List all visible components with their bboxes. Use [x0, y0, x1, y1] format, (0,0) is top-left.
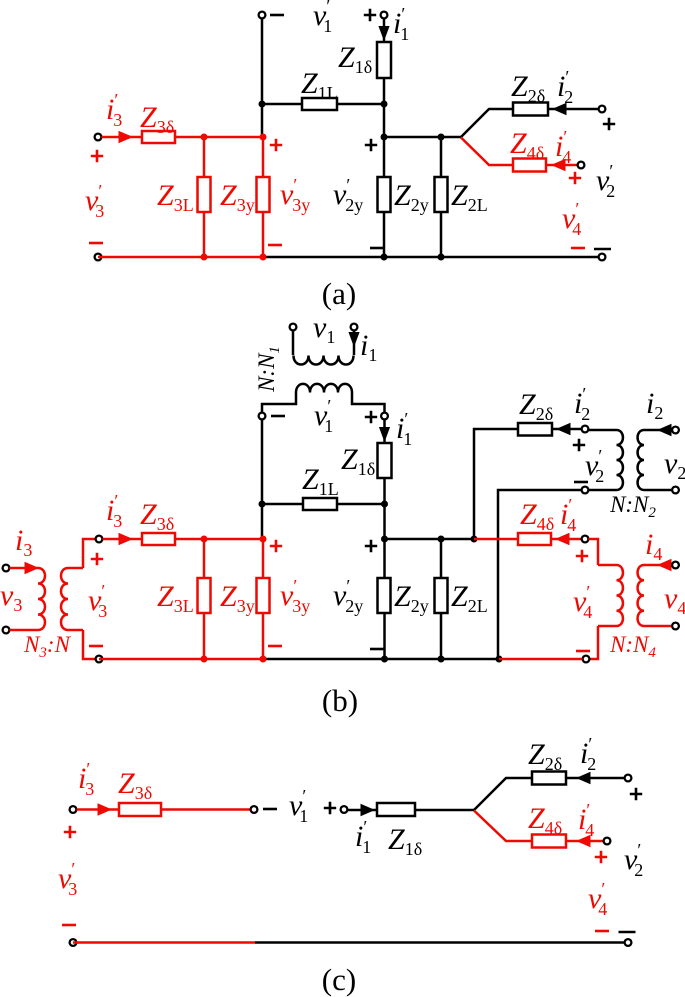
arrow i4' (b)	[555, 533, 570, 545]
transformer T1 secondary winding (b)	[262, 384, 385, 412]
svg-text:v1: v1	[313, 311, 335, 347]
terminal v4 plus (b)	[672, 562, 679, 569]
impedance Z3d (b)	[142, 533, 175, 545]
svg-text:Z1δ: Z1δ	[388, 823, 422, 859]
transformer T2 primary winding (b)	[589, 430, 623, 490]
svg-text:i′4: i′4	[560, 495, 576, 535]
transformer T3 source terminal top (b)	[3, 565, 10, 572]
arrow i3' (c)	[98, 803, 113, 815]
svg-text:Z2L: Z2L	[451, 179, 488, 215]
svg-text:Z1δ: Z1δ	[341, 443, 375, 479]
svg-text:N:N2: N:N2	[609, 492, 656, 521]
svg-text:Z3δ: Z3δ	[140, 101, 174, 137]
svg-text:N3:N: N3:N	[23, 632, 72, 661]
svg-text:i4: i4	[645, 528, 662, 564]
terminal common minus (c)	[625, 939, 632, 946]
arrow i2 (b)	[657, 424, 672, 436]
red bottom wire (b)	[99, 658, 263, 661]
wire Z2d to terminal (c)	[566, 777, 625, 780]
junction Z2y bottom (a)	[381, 254, 388, 261]
impedance Z2d (a)	[513, 103, 548, 116]
plus sign v2y' (b)	[365, 540, 377, 552]
arrow i4' (c)	[576, 835, 591, 847]
terminal v2' minus (b)	[582, 487, 589, 494]
junction Z2y bottom (b)	[381, 656, 388, 663]
terminal v3' minus (c)	[70, 939, 77, 946]
junction Z1L left (b)	[259, 501, 266, 508]
svg-text:Z1δ: Z1δ	[338, 41, 372, 77]
plus sign v3' (b)	[91, 553, 103, 565]
plus sign v3y' (b)	[270, 540, 282, 552]
wire v3' to Z3d (a)	[102, 136, 143, 139]
terminal v1 left (b)	[290, 324, 297, 331]
terminal i4' (a)	[578, 162, 585, 169]
minus sign v3' (a)	[89, 242, 103, 245]
wire T4 primary top lead (b)	[589, 539, 599, 565]
overline minus v2' (c)	[619, 931, 636, 934]
junction Z2L bottom (a)	[438, 254, 445, 261]
svg-text:i′4: i′4	[578, 800, 594, 840]
svg-text:(c): (c)	[322, 962, 356, 997]
arrow i3 (b)	[25, 562, 40, 574]
terminal common minus (a)	[599, 254, 606, 261]
arrow i1' (c)	[361, 804, 376, 816]
terminal v2 minus (b)	[672, 487, 679, 494]
svg-text:i′2: i′2	[580, 734, 596, 774]
junction left on Z1L row (a)	[259, 101, 266, 108]
terminal v3' minus (a)	[95, 254, 102, 261]
svg-text:Z3y: Z3y	[220, 179, 255, 215]
svg-text:Z3L: Z3L	[157, 179, 194, 215]
plus sign v4' (b)	[576, 550, 588, 562]
plus sign v1' (c)	[324, 802, 336, 814]
svg-text:v′3y: v′3y	[280, 576, 310, 616]
junction Z3L top (b)	[201, 536, 208, 543]
plus sign v4' (c)	[595, 851, 607, 863]
svg-text:Z4δ: Z4δ	[510, 127, 544, 163]
wire Z3d to node column (a)	[175, 136, 263, 139]
junction Z2L top (a)	[438, 134, 445, 141]
impedance Z4d (c)	[532, 835, 566, 848]
junction Z3y top (b)	[260, 536, 267, 543]
svg-text:Z2L: Z2L	[451, 580, 488, 616]
impedance Z3L (b)	[198, 578, 211, 613]
wire v3' to Z3d (b)	[103, 538, 143, 541]
impedance Z2L (b)	[435, 578, 448, 613]
transformer T2 secondary winding (b)	[638, 430, 672, 490]
red wire bottom right (b)	[499, 658, 583, 661]
wire T4 primary bottom lead (b)	[590, 626, 599, 659]
plus sign v4' (a)	[569, 172, 581, 184]
impedance Z2y (b)	[378, 578, 391, 613]
wire fork to Z4d branch (a)	[461, 138, 513, 166]
terminal v1 right (b)	[351, 324, 358, 331]
wire row to fork (a)	[384, 136, 461, 139]
svg-text:v′3: v′3	[85, 181, 104, 221]
minus sign v1' (b)	[271, 415, 285, 418]
wire Z3L column (b)	[203, 539, 206, 659]
svg-text:v′2: v′2	[624, 840, 643, 880]
wire Z2d to terminal (b)	[552, 428, 582, 431]
arrow i1' down (b)	[379, 427, 390, 442]
plus sign v1' (b)	[365, 411, 377, 423]
impedance Z2y (a)	[378, 177, 391, 212]
junction Z3L bottom (b)	[201, 656, 208, 663]
junction at bottom of v2 return (b)	[496, 656, 503, 663]
junction Z3L top (a)	[201, 134, 208, 141]
red wire Z4d branch (b)	[474, 538, 518, 541]
svg-text:Z3y: Z3y	[220, 580, 255, 616]
svg-text:v′3: v′3	[88, 581, 107, 621]
wire v2' minus to bottom (b)	[498, 490, 582, 659]
transformer T4 secondary winding (b)	[638, 565, 672, 626]
wire Z1L row (b)	[262, 503, 385, 506]
black bottom wire (a)	[263, 256, 599, 259]
svg-text:N:N1: N:N1	[254, 346, 283, 393]
svg-text:Z1L: Z1L	[301, 67, 338, 103]
svg-text:v2: v2	[664, 447, 685, 483]
terminal v1' right (c)	[341, 806, 348, 813]
impedance Z1L (b)	[303, 498, 337, 510]
overline minus v2' (a)	[594, 248, 611, 251]
svg-text:Z3δ: Z3δ	[140, 498, 174, 534]
junction Z1L right (b)	[381, 501, 388, 508]
wire left column top (a)	[261, 19, 264, 138]
svg-text:(b): (b)	[322, 683, 358, 718]
junction Z3y bottom (a)	[260, 254, 267, 261]
red bottom wire (c)	[73, 941, 255, 944]
impedance Z3d (a)	[142, 131, 175, 143]
terminal i2' (b)	[582, 426, 589, 433]
svg-text:Z2y: Z2y	[394, 179, 429, 215]
junction Z3L bottom (a)	[201, 254, 208, 261]
transformer T1 primary winding (b)	[294, 356, 354, 365]
wire Z1L row (a)	[262, 103, 384, 106]
junction Z3y top (a)	[260, 134, 267, 141]
plus sign v2y' (a)	[365, 139, 377, 151]
terminal i2' (c)	[625, 775, 632, 782]
minus sign v1' (c)	[263, 808, 277, 811]
terminal v3' minus (b)	[96, 656, 103, 663]
wire Z2L column (b)	[440, 539, 443, 659]
svg-text:N:N4: N:N4	[609, 632, 656, 661]
plus sign v3' (a)	[91, 150, 103, 162]
junction Z2d branch (b)	[471, 536, 478, 543]
impedance Z3y (b)	[257, 578, 270, 613]
wire fork to Z2d branch (c)	[474, 778, 532, 810]
svg-text:i′3: i′3	[106, 491, 122, 531]
junction Z2L top (b)	[438, 536, 445, 543]
svg-text:v4: v4	[664, 582, 685, 618]
terminal i1' (a)	[381, 12, 388, 19]
impedance Z2d (c)	[532, 772, 566, 785]
svg-text:i3: i3	[15, 524, 32, 560]
plus sign v2' (c)	[630, 788, 642, 800]
svg-text:Z1L: Z1L	[302, 463, 339, 499]
minus sign v3' (c)	[62, 924, 76, 927]
svg-text:v′3y: v′3y	[280, 175, 310, 215]
impedance Z1d (c)	[377, 803, 415, 816]
transformer T3 source terminal bottom (b)	[3, 627, 10, 634]
wire Z4d to terminal (c)	[566, 840, 604, 843]
wire Z1d to Z1L row (a)	[383, 78, 386, 137]
svg-text:v′2: v′2	[596, 161, 615, 201]
terminal i4' (c)	[604, 838, 611, 845]
wire i1' down to Z1d (a)	[383, 19, 386, 43]
wire row1 center (b)	[385, 538, 475, 541]
terminal v1' minus (a)	[259, 12, 266, 19]
minus sign v4' (c)	[595, 930, 609, 933]
wire Z3d to columns (b)	[175, 538, 263, 541]
arrow i1' down (a)	[378, 26, 389, 41]
svg-text:v′4: v′4	[562, 199, 581, 239]
svg-text:Z3L: Z3L	[157, 580, 194, 616]
svg-text:i′1: i′1	[355, 817, 371, 857]
terminal v1' left (c)	[251, 806, 258, 813]
plus sign at i1' terminal (a)	[364, 9, 376, 21]
svg-text:v3: v3	[0, 579, 22, 615]
arrow i2' (a)	[552, 103, 567, 115]
red bottom wire (a)	[98, 256, 263, 259]
wire Z3d to v1' terminal (c)	[161, 808, 251, 811]
junction Z3y bottom (b)	[260, 656, 267, 663]
terminal v2 plus (b)	[672, 427, 679, 434]
impedance Z3y (a)	[257, 177, 270, 212]
terminal v3' plus (c)	[70, 806, 77, 813]
plus sign v3y' (a)	[270, 139, 282, 151]
svg-text:v′1: v′1	[313, 0, 332, 36]
wire Z3L column (a)	[203, 137, 206, 257]
arrow i1 down (b)	[348, 332, 359, 347]
wire T3 secondary top lead (b)	[83, 539, 96, 568]
svg-text:v′1: v′1	[289, 786, 308, 826]
minus sign v3' (b)	[89, 645, 103, 648]
wire Z2y column (a)	[383, 137, 386, 257]
black bottom wire (b)	[263, 658, 499, 661]
svg-text:v′2y: v′2y	[333, 175, 363, 215]
minus sign v2' (b)	[574, 481, 588, 484]
impedance Z1L (a)	[302, 98, 337, 110]
wire v1 right lead (b)	[353, 331, 356, 356]
junction Z2y top (a)	[381, 134, 388, 141]
svg-text:(a): (a)	[322, 276, 356, 311]
svg-text:Z2y: Z2y	[394, 580, 429, 616]
wire Z3y column (a)	[262, 137, 265, 257]
wire v1 left lead (b)	[292, 331, 295, 356]
svg-text:Z4δ: Z4δ	[520, 498, 554, 534]
minus sign v4' (a)	[571, 247, 585, 250]
wire v3' to Z3d (c)	[77, 808, 120, 811]
arrow i4' (a)	[551, 159, 566, 171]
wire Z2d to terminal (a)	[548, 108, 599, 111]
arrow i4 (b)	[657, 559, 672, 571]
impedance Z4d (a)	[513, 159, 546, 172]
svg-text:v′4: v′4	[573, 582, 592, 622]
transformer T3 primary winding (b)	[10, 568, 45, 630]
svg-text:i′4: i′4	[555, 127, 571, 167]
transformer T4 primary winding (b)	[598, 565, 623, 626]
svg-text:i′2: i′2	[557, 67, 573, 107]
svg-text:i′1: i′1	[393, 4, 409, 44]
wire T3 secondary bottom lead (b)	[83, 630, 96, 659]
plus sign v3' (c)	[64, 826, 76, 838]
minus sign v2y' (a)	[370, 247, 384, 250]
terminal v4' minus (b)	[583, 656, 590, 663]
terminal v4 minus (b)	[672, 623, 679, 630]
svg-text:Z4δ: Z4δ	[528, 802, 562, 838]
impedance Z3d (c)	[119, 803, 161, 816]
wire left column (b)	[261, 420, 264, 540]
svg-text:Z2δ: Z2δ	[511, 70, 545, 106]
terminal v3' plus (a)	[95, 134, 102, 141]
svg-text:i′2: i′2	[574, 384, 590, 424]
svg-text:i′3: i′3	[106, 90, 122, 130]
svg-text:Z3δ: Z3δ	[118, 767, 152, 803]
svg-text:i2: i2	[646, 387, 663, 423]
wire Z2L column (a)	[440, 137, 443, 257]
plus sign v2' (a)	[603, 118, 615, 130]
wire Z1d to fork (c)	[415, 809, 474, 812]
wire Z2y column (b)	[383, 539, 386, 659]
svg-text:Z2δ: Z2δ	[519, 388, 553, 424]
arrow i3' (b)	[119, 533, 134, 545]
plus sign v2' (b)	[573, 439, 585, 451]
impedance Z2d (b)	[518, 423, 552, 436]
svg-text:v′4: v′4	[588, 879, 607, 919]
wire Z4d to terminal (a)	[546, 164, 577, 167]
impedance Z3L (a)	[198, 177, 211, 212]
minus sign at v1' terminal (a)	[270, 14, 284, 17]
minus sign v3y' (b)	[268, 645, 282, 648]
wire Z1d to row (b)	[383, 478, 386, 539]
terminal i4' (b)	[582, 536, 589, 543]
terminal v1' minus (b)	[259, 413, 266, 420]
wire fork to Z4d branch (c)	[474, 811, 532, 842]
impedance Z1d (a)	[377, 42, 391, 78]
svg-text:i1: i1	[360, 329, 377, 365]
svg-text:i′1: i′1	[396, 409, 412, 449]
minus sign v4' (b)	[576, 650, 590, 653]
junction right on Z1L row (a)	[381, 101, 388, 108]
junction Z2y top (b)	[381, 536, 388, 543]
wire Z3y column (b)	[262, 539, 265, 659]
junction Z2L bottom (b)	[438, 656, 445, 663]
svg-text:v′3: v′3	[58, 859, 77, 899]
svg-text:i′3: i′3	[78, 759, 94, 799]
impedance Z2L (a)	[435, 177, 448, 212]
impedance Z1d (b)	[378, 443, 392, 478]
terminal i2' (a)	[599, 106, 606, 113]
svg-text:Z2δ: Z2δ	[528, 738, 562, 774]
wire v1' to Z1d (c)	[348, 809, 378, 812]
svg-text:v′2y: v′2y	[333, 576, 363, 616]
arrow i2' (c)	[576, 772, 591, 784]
terminal v1' plus (b)	[381, 413, 388, 420]
arrow i2' (b)	[556, 423, 571, 435]
wire i1' down (b)	[383, 420, 386, 444]
svg-text:v′2: v′2	[585, 446, 604, 486]
terminal v3' plus (b)	[96, 536, 103, 543]
arrow i3' (a)	[119, 131, 134, 143]
wire Z4d to terminal (b)	[551, 538, 582, 541]
minus sign v3y' (a)	[268, 244, 282, 247]
transformer T3 secondary winding (b)	[61, 568, 83, 630]
wire up to Z2d branch (b)	[474, 429, 518, 539]
minus sign v2y' (b)	[370, 648, 384, 651]
black bottom wire (c)	[255, 941, 625, 944]
wire fork to Z2d branch (a)	[461, 109, 513, 137]
svg-text:v′1: v′1	[314, 396, 333, 436]
impedance Z4d (b)	[518, 533, 551, 545]
